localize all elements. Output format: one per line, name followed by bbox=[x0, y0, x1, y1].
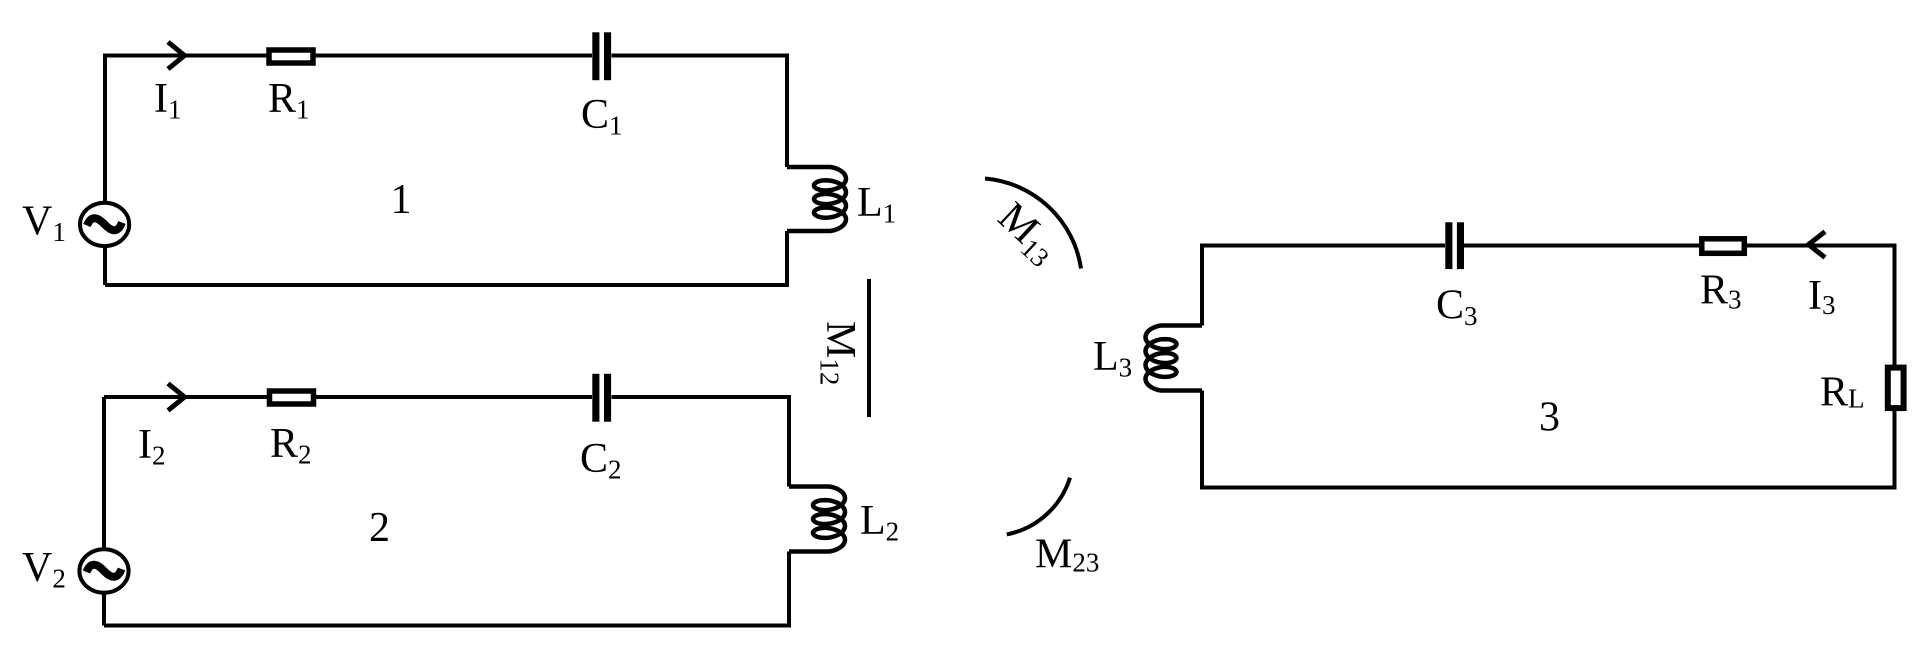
wire loop3 top (resistor R3 to top-right corner) down to RL bbox=[1747, 246, 1895, 366]
mutual inductance M23 coupling arc bbox=[1007, 478, 1070, 535]
svg-text:V2: V2 bbox=[22, 545, 66, 594]
wire loop3 top (L3 corner to capacitor C3) bbox=[1202, 246, 1445, 326]
svg-text:I1: I1 bbox=[154, 76, 182, 125]
wire loop2 top (resistor R2 to capacitor C2) bbox=[316, 395, 592, 399]
svg-text:V1: V1 bbox=[22, 199, 66, 248]
mutual inductance M12 coupling line bbox=[867, 279, 871, 417]
capacitor C3 bbox=[1445, 222, 1464, 269]
svg-text:3: 3 bbox=[1539, 395, 1560, 441]
svg-text:C1: C1 bbox=[581, 92, 623, 141]
resistor R1 bbox=[269, 50, 313, 63]
svg-text:M12: M12 bbox=[815, 321, 864, 385]
svg-text:I2: I2 bbox=[138, 422, 166, 471]
wire loop2 right below L2 and bottom run bbox=[104, 552, 789, 626]
inductor L2 bbox=[789, 487, 845, 552]
resistor R2 bbox=[270, 391, 314, 404]
resistor R3 bbox=[1702, 239, 1745, 254]
inductor L1 bbox=[787, 167, 846, 231]
svg-text:I3: I3 bbox=[1808, 273, 1836, 320]
arrow current I2 bbox=[168, 384, 185, 411]
resistor RL (load) bbox=[1888, 368, 1904, 409]
svg-text:R1: R1 bbox=[268, 76, 310, 125]
wire loop1 top (resistor R1 to capacitor C1) bbox=[315, 54, 592, 58]
arrow current I3 bbox=[1809, 232, 1826, 258]
source V1 bbox=[80, 203, 129, 246]
wire loop2 left+top (source corner to resistor R2) bbox=[104, 395, 267, 399]
svg-text:M23: M23 bbox=[1035, 532, 1099, 578]
wire loop1 left: gap for source V1 bbox=[103, 56, 107, 202]
inductor L3 bbox=[1146, 326, 1203, 391]
wire loop3 right below RL, bottom run, left side up to L3 bbox=[1202, 391, 1895, 488]
wire loop1 top (capacitor C1 to top-right corner) and right side down to L1 bbox=[612, 56, 788, 168]
svg-text:1: 1 bbox=[391, 177, 412, 223]
svg-text:RL: RL bbox=[1820, 370, 1865, 416]
wire loop1 top (left run, source corner to resistor R1) bbox=[105, 56, 267, 286]
svg-text:C3: C3 bbox=[1436, 283, 1478, 332]
capacitor C2 bbox=[592, 374, 611, 422]
svg-text:L1: L1 bbox=[857, 180, 896, 229]
wire loop2 top (capacitor C2 to corner) and right side down to L2 bbox=[612, 397, 790, 487]
arrow current I1 bbox=[168, 42, 185, 69]
svg-text:R2: R2 bbox=[270, 421, 312, 470]
svg-text:L2: L2 bbox=[860, 498, 899, 547]
svg-text:C2: C2 bbox=[580, 436, 622, 485]
source V2 bbox=[79, 549, 128, 592]
wire loop2 left: gap for source V2 bbox=[102, 397, 106, 548]
svg-text:2: 2 bbox=[369, 505, 390, 551]
svg-text:L3: L3 bbox=[1093, 334, 1132, 383]
mutual inductance M13 coupling arc bbox=[985, 179, 1081, 269]
wire loop3 top (capacitor C3 to resistor R3) bbox=[1464, 244, 1699, 248]
capacitor C1 bbox=[592, 32, 611, 80]
svg-text:M13: M13 bbox=[987, 194, 1067, 273]
wire loop1 right below L1 and bottom run back to source bbox=[105, 231, 787, 285]
svg-text:R3: R3 bbox=[1700, 268, 1742, 315]
